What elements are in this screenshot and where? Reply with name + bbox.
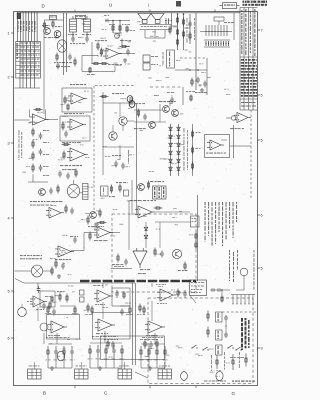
svg-text:3: 3	[8, 142, 10, 146]
svg-text:|: |	[148, 2, 149, 7]
svg-text:4: 4	[8, 217, 10, 221]
svg-text:5: 5	[261, 94, 263, 98]
svg-text:7: 7	[261, 29, 263, 33]
svg-text:6: 6	[8, 337, 10, 341]
svg-text:6: 6	[261, 214, 263, 218]
svg-text:5: 5	[8, 290, 10, 294]
svg-text:5: 5	[261, 267, 263, 271]
svg-text:U: U	[109, 3, 112, 8]
svg-text:5: 5	[261, 139, 263, 143]
svg-text:G: G	[232, 391, 236, 396]
svg-text:2: 2	[8, 76, 10, 80]
svg-text:9: 9	[261, 347, 263, 351]
svg-text:B: B	[43, 391, 46, 396]
svg-text:1: 1	[8, 32, 10, 36]
